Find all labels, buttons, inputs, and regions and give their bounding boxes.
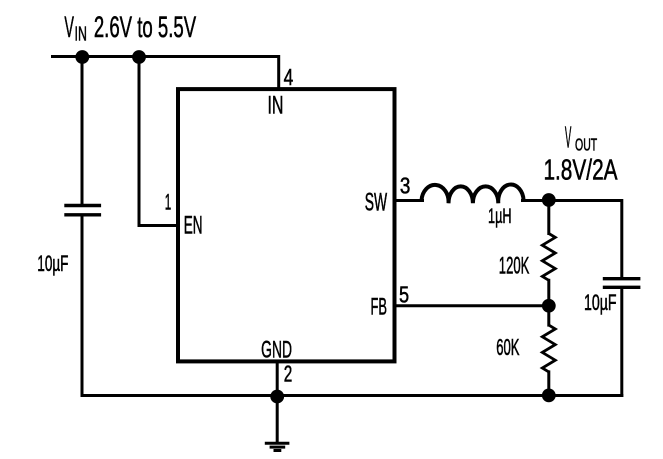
svg-text:V: V — [64, 11, 74, 44]
svg-text:2: 2 — [284, 361, 293, 387]
svg-text:SW: SW — [365, 190, 388, 217]
svg-text:FB: FB — [371, 295, 387, 321]
svg-text:EN: EN — [184, 213, 203, 240]
svg-text:3: 3 — [400, 172, 411, 198]
svg-text:1µH: 1µH — [488, 205, 512, 228]
svg-text:4: 4 — [284, 64, 294, 90]
svg-text:5: 5 — [399, 282, 409, 308]
svg-text:120K: 120K — [499, 252, 530, 279]
svg-text:10µF: 10µF — [584, 290, 617, 315]
svg-text:2.6V to 5.5V: 2.6V to 5.5V — [94, 11, 196, 44]
svg-text:V: V — [565, 119, 572, 154]
svg-text:60K: 60K — [496, 334, 519, 360]
svg-text:IN: IN — [267, 91, 283, 119]
svg-text:OUT: OUT — [575, 135, 597, 155]
svg-text:1.8V/2A: 1.8V/2A — [543, 154, 617, 186]
svg-text:IN: IN — [75, 22, 87, 45]
svg-text:1: 1 — [165, 189, 171, 214]
svg-text:10µF: 10µF — [37, 251, 68, 276]
